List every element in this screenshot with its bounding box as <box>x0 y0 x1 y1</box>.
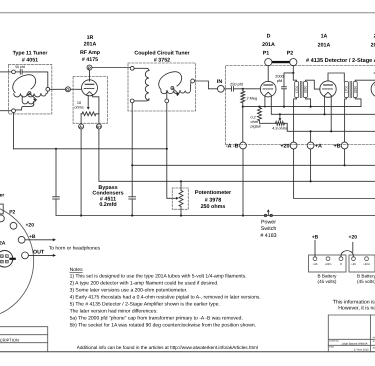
svg-text:# 4183: # 4183 <box>260 233 276 239</box>
bypass condenser wire from tuner bus <box>55 149 57 197</box>
potentiometer resistor element <box>179 191 183 207</box>
svg-text:4) Early 4175 rheostats had a: 4) Early 4175 rheostats had a 0.4-ohm re… <box>70 294 261 300</box>
svg-text:OUT: OUT <box>33 249 45 255</box>
wire +20 battery lead <box>352 242 354 252</box>
wire filament right leg to rheostat right and A+ <box>93 95 99 114</box>
svg-text:IN: IN <box>217 79 222 85</box>
svg-text:10: 10 <box>373 340 375 343</box>
svg-text:G: G <box>1 255 3 258</box>
1A filament right leg to +A line <box>330 96 332 131</box>
svg-text:Drawn by: Drawn by <box>329 340 339 343</box>
bypass condenser 2 <box>129 196 136 198</box>
wiper arrow onto 4.3 ohms <box>279 113 281 115</box>
bypass condenser 1 <box>53 196 60 198</box>
svg-text:1) This set is designed to use: 1) This set is designed to use the type … <box>70 273 247 279</box>
svg-text:Coupled Circuit Tuner: Coupled Circuit Tuner <box>134 50 189 56</box>
wire antenna stub into tuner top <box>0 71 12 73</box>
panel terminal +20 <box>10 222 17 229</box>
svg-text:Date: Date <box>329 346 334 349</box>
capacitor 50 pfd <box>19 70 21 75</box>
svg-text:3290: 3290 <box>354 86 358 94</box>
wire +B down to B bus <box>344 149 346 165</box>
tube socket on panel <box>0 250 13 267</box>
terminal +A <box>307 142 314 149</box>
panel terminal OUT <box>22 252 29 259</box>
detector filament right leg to 4.3ohm line <box>271 96 375 115</box>
wire ground stub into tuner bottom <box>0 110 12 112</box>
svg-text:The later version had minor di: The later version had minor differences: <box>70 309 158 315</box>
svg-text:B Battery: B Battery <box>318 273 338 278</box>
sheet bottom border <box>0 351 375 353</box>
svg-text:P: P <box>88 65 91 70</box>
wire tuner bottom terminal down to bus <box>13 113 15 149</box>
svg-text:Switch: Switch <box>261 226 277 232</box>
wire A+ down then right forming +A bus <box>99 129 375 181</box>
front panel outline circle <box>0 204 34 319</box>
2A plate wire off edge <box>374 72 375 74</box>
wire 2Meg junction down to -A-B terminal <box>242 107 244 143</box>
terminal A- <box>79 124 84 129</box>
svg-text:50 pfd: 50 pfd <box>15 65 25 69</box>
svg-text:+45: +45 <box>313 262 318 266</box>
wire rheostat left to A- terminal <box>80 113 83 115</box>
terminal P1 <box>265 59 272 66</box>
amplifier tube 2A envelope <box>371 81 375 97</box>
svg-text:0.2: 0.2 <box>251 116 256 120</box>
variometer coil of Type 11 tuner <box>13 75 36 93</box>
revision table bottom left <box>0 327 48 352</box>
svg-text:(45 volts): (45 volts) <box>318 279 337 284</box>
svg-text:1700: 1700 <box>345 86 349 94</box>
wire pot top to +A bus <box>180 181 182 190</box>
wire pigtail to 4.3 ohm resistor <box>260 121 276 124</box>
socket key bar <box>9 258 15 260</box>
svg-text:1R: 1R <box>87 35 94 41</box>
svg-text:201A: 201A <box>318 42 331 48</box>
detector tube D envelope <box>260 81 276 97</box>
wire P down to tube plate <box>89 70 91 81</box>
tube 1A grid dashes <box>323 88 334 90</box>
svg-text:2000: 2000 <box>275 75 283 79</box>
svg-text:# 4175: # 4175 <box>82 57 98 63</box>
svg-text:Leigh Bassett W4WJA: Leigh Bassett W4WJA <box>342 342 368 345</box>
svg-text:To horn or headphones: To horn or headphones <box>49 245 101 251</box>
sheet top border <box>0 12 375 14</box>
wire G to tube grid <box>70 88 81 90</box>
svg-text:250 ohms: 250 ohms <box>201 204 226 210</box>
svg-text:3) Some later versions use a 2: 3) Some later versions use a 200-ohm pot… <box>70 287 188 293</box>
svg-text:201A: 201A <box>262 42 275 48</box>
svg-text:5a) The 2000 pfd "phone" cap f: 5a) The 2000 pfd "phone" cap from transf… <box>70 316 243 322</box>
audio transformer 2 secondary 3290 <box>353 81 357 97</box>
svg-text:2A: 2A <box>0 240 6 246</box>
wire tuner ground bus <box>14 148 167 150</box>
svg-text:er: er <box>0 192 4 198</box>
svg-text:+A: +A <box>315 143 322 149</box>
wire coupled tuner secondary bottom down to potentiometer wiper <box>166 103 168 149</box>
terminal -A -B <box>240 142 247 149</box>
terminal secondary bottom <box>165 99 169 103</box>
svg-text:G: G <box>66 87 69 92</box>
svg-text:+22½: +22½ <box>363 262 371 266</box>
tube 2A plate bar <box>374 84 375 86</box>
svg-text:# 4135 Detector / 2-Stage Ampl: # 4135 Detector / 2-Stage Amplifier <box>306 57 375 64</box>
terminal +20 <box>290 142 297 149</box>
binding post box at left edge <box>0 204 3 214</box>
svg-text:pigtail: pigtail <box>251 125 261 129</box>
tube 1A plate bar <box>324 84 333 86</box>
secondary variometer coil <box>159 72 182 90</box>
svg-text:-A -B: -A -B <box>226 143 239 149</box>
terminal on tuner top-left <box>12 70 16 74</box>
battery1 terminals <box>313 257 317 261</box>
svg-text:Additional info can be found i: Additional info can be found in the arti… <box>77 345 258 350</box>
Type 11 Tuner #4051 dashed enclosure <box>9 64 52 114</box>
tube 1R filament <box>86 92 92 95</box>
panel terminal P2 <box>0 215 4 222</box>
svg-text:(45 volts): (45 volts) <box>357 279 375 284</box>
svg-text:3290: 3290 <box>304 86 308 94</box>
svg-text:DESCRIPTION: DESCRIPTION <box>0 337 19 342</box>
variometer 2 arrow <box>172 88 178 96</box>
svg-text:RF Amp: RF Amp <box>80 50 101 56</box>
svg-text:201A: 201A <box>371 42 375 48</box>
series link arc battery1 to battery2 <box>341 251 353 257</box>
svg-text:+22½: +22½ <box>324 262 332 266</box>
wire OUT to horn arrow <box>28 254 52 256</box>
power switch #4183 contacts <box>264 214 266 216</box>
wire +B to horn arrow <box>25 239 53 241</box>
svg-text:5b) The socket for 1A was rota: 5b) The socket for 1A was rotated 90 deg… <box>70 323 256 329</box>
audio transformer 1 secondary 3290 <box>304 81 308 97</box>
tube 1A filament <box>325 92 332 95</box>
detector filament left leg to bus <box>264 96 266 107</box>
wire +B battery lead <box>314 240 316 256</box>
wire tuner output to grid terminal G <box>50 88 66 90</box>
grid terminal G of RF amp <box>65 87 70 92</box>
wire secondary bottom to -A-B bus <box>306 98 311 107</box>
wire junction to phone cap 2000pfd <box>284 73 293 87</box>
wire P2 junction to transformer 1 primary top <box>293 73 296 81</box>
svg-text:4.3 ohms: 4.3 ohms <box>272 126 288 130</box>
bus B+ horizontal <box>132 164 375 166</box>
wire 250pfd to detector grid <box>234 88 261 90</box>
wire coupled tuner primary bottom down through bypass condenser 2 <box>131 103 133 197</box>
wire +20 down then right <box>294 149 375 199</box>
svg-text:+B: +B <box>312 235 319 241</box>
filament wire to rheostat wiper arrow <box>87 95 89 107</box>
tube 1R grid dashes <box>84 88 95 90</box>
rheostat 10 ohms zigzag <box>82 112 96 116</box>
wire 4.3 ohms right end down to +A line <box>285 123 375 131</box>
audio transformer 1 primary 1700 <box>295 81 299 97</box>
transformer 1 core <box>299 81 301 97</box>
svg-text:2) A type 200 detector with 1-: 2) A type 200 detector with 1-amp filame… <box>70 280 219 286</box>
Coupled Circuit Tuner #3752 dashed enclosure <box>128 63 196 111</box>
variometer arrow <box>29 93 36 101</box>
svg-text:250 pfd: 250 pfd <box>230 82 243 86</box>
terminal A+ <box>96 124 101 129</box>
1A filament left leg to wiper line <box>324 96 326 114</box>
wire transformer2 secondary top to 2A grid <box>355 80 375 81</box>
svg-text:ohms: ohms <box>74 105 83 109</box>
terminal primary bottom <box>130 99 134 103</box>
svg-text:5) The # 4135 Detector / 2-Sta: 5) The # 4135 Detector / 2-Stage Amplifi… <box>70 302 220 308</box>
terminal secondary output right <box>191 79 195 83</box>
svg-text:D: D <box>267 34 271 40</box>
potentiometer wiper arrow <box>176 197 179 200</box>
svg-text:# 3978: # 3978 <box>205 198 222 204</box>
svg-text:B Battery: B Battery <box>357 273 375 278</box>
terminal tuner bottom-left <box>12 109 16 113</box>
svg-text:+20: +20 <box>26 223 35 229</box>
amplifier unit #4135 dashed enclosure <box>225 66 375 145</box>
tube 1R plate bar <box>85 83 94 85</box>
terminal P2 <box>290 59 297 66</box>
svg-text:# 3752: # 3752 <box>154 57 170 63</box>
resistor 4.3 ohms <box>276 121 285 125</box>
socket pin squares <box>1 255 4 258</box>
wire +A down to +A bus <box>310 149 312 181</box>
wire secondary output to IN <box>195 81 218 89</box>
B battery 1 box <box>309 255 347 272</box>
title block bottom right <box>328 315 375 352</box>
svg-text:2 Meg: 2 Meg <box>247 96 258 100</box>
terminal tuner output <box>46 87 50 91</box>
svg-text:pfd: pfd <box>277 79 282 83</box>
svg-text:Type 11 Tuner: Type 11 Tuner <box>13 50 48 56</box>
tube D plate bar <box>264 84 272 86</box>
jumper bar P1-P2 <box>272 61 290 63</box>
wire primary bottom down to +20 terminal <box>294 98 297 142</box>
potentiometer #3978 dashed box <box>172 188 188 209</box>
svg-text:P2: P2 <box>287 50 294 56</box>
terminal +B <box>341 142 348 149</box>
power switch lever arrow <box>267 212 269 216</box>
svg-text:Notes: Notes <box>70 267 84 273</box>
svg-text:27 Nov 2013: 27 Nov 2013 <box>354 349 369 352</box>
svg-text:P1: P1 <box>263 50 270 56</box>
capacitor 2000 pfd <box>282 86 287 88</box>
wire cap to tuner right side down to output terminal <box>22 72 48 87</box>
svg-text:+20: +20 <box>280 143 289 149</box>
svg-text:201A: 201A <box>84 41 97 47</box>
wire pot bottom to ground bus <box>180 207 182 216</box>
svg-text:However, it is not guaranteed: However, it is not guaranteed <box>338 305 375 311</box>
wire P to coupled tuner <box>92 67 130 69</box>
wire P2 down to transformer primary <box>292 66 294 73</box>
svg-text:1700: 1700 <box>295 86 299 94</box>
svg-text:+B: +B <box>333 143 340 149</box>
terminal primary top <box>130 66 134 70</box>
wire secondary top to 1A grid <box>306 80 320 89</box>
wire transformer2 secondary bottom to -A-B bus <box>355 98 361 107</box>
panel terminal +B <box>18 236 25 243</box>
svg-text:Potentiometer: Potentiometer <box>195 190 232 196</box>
svg-text:+B: +B <box>29 234 36 240</box>
tube D grid dashes <box>263 88 273 90</box>
transformer 2 core <box>349 81 351 97</box>
tube D filament <box>265 92 271 95</box>
RF amp dashed enclosure #4175 <box>73 77 107 124</box>
resistor 0.2 ohm pigtail <box>258 106 260 108</box>
wire A- down to bottom bus <box>80 129 82 216</box>
terminal IN <box>217 85 224 92</box>
svg-text:A+: A+ <box>97 125 102 129</box>
svg-text:+45: +45 <box>351 262 356 266</box>
svg-text:+20: +20 <box>349 235 358 241</box>
triode tube 1R envelope <box>82 80 98 96</box>
svg-text:P2: P2 <box>9 210 15 216</box>
svg-text:Power: Power <box>261 219 276 225</box>
primary coil <box>134 68 149 70</box>
capacitor 250 pfd <box>224 88 231 90</box>
wire 1A plate to transformer 2 primary <box>328 73 344 81</box>
resistor 2 Meg grid leak <box>241 91 245 103</box>
audio transformer 2 primary 1700 <box>345 81 349 97</box>
svg-text:0.2mfd: 0.2mfd <box>99 202 116 208</box>
svg-text:1A: 1A <box>321 34 328 40</box>
B battery 2 box <box>349 255 375 272</box>
amplifier tube 1A envelope <box>320 81 336 97</box>
svg-text:ohm: ohm <box>251 120 258 124</box>
wire transformer2 primary bottom to +B terminal <box>345 98 347 142</box>
battery2 terminals <box>352 257 356 261</box>
-A-B filament bus inside amplifier <box>243 106 361 108</box>
wire detector plate up to P1 <box>267 66 269 82</box>
svg-text:# 4051: # 4051 <box>22 57 38 63</box>
plate terminal P <box>87 65 92 70</box>
